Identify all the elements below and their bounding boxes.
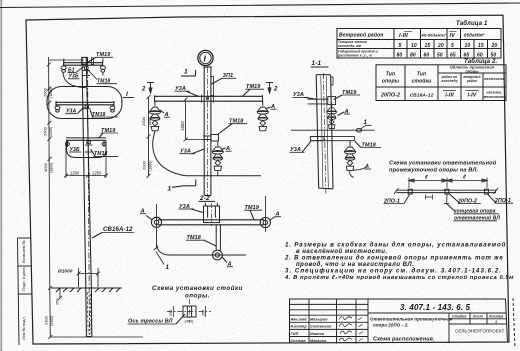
svg-text:Схема расположения.: Схема расположения.: [373, 337, 435, 343]
svg-text:I-III: I-III: [399, 33, 408, 39]
svg-text:2: 2: [273, 87, 278, 93]
OHL line: [397, 189, 497, 191]
svg-text:5: 5: [451, 43, 454, 49]
svg-text:2300: 2300: [44, 315, 49, 325]
svg-text:15: 15: [425, 43, 431, 49]
svg-text:1: 1: [184, 69, 188, 76]
branch bracket on pole: [203, 135, 218, 142]
pole fittings marks bottom: [85, 141, 93, 152]
svg-text:расстояние ℓ₁,ℓ₂, м: расстояние ℓ₁,ℓ₂, м: [337, 54, 372, 58]
svg-text:65даН/м²: 65даН/м²: [464, 33, 485, 38]
svg-text:Инв.№ подл.: Инв.№ подл.: [21, 316, 26, 340]
pole symbol 2ПО-1 (right): [484, 189, 488, 194]
crossarm (detail I): [155, 95, 263, 97]
label ТМ18 (top assembly): [89, 71, 118, 85]
svg-text:Иванов: Иванов: [310, 332, 325, 336]
svg-text:Н.контр: Н.контр: [291, 325, 308, 329]
svg-text:3. Спецификацию на опору см: 3. Спецификацию на опору см. докум. 3.40…: [285, 268, 502, 275]
svg-text:80: 80: [410, 52, 416, 58]
label ТМ18 (2-2): [186, 235, 216, 246]
svg-text:Взам.инв.№: Взам.инв.№: [21, 240, 26, 263]
detail mark I: [123, 91, 134, 98]
middle crossarm: [56, 101, 114, 103]
pole symbol 20ПО-2 (middle): [445, 189, 449, 194]
label ТМ19 (bottom assembly): [99, 128, 118, 138]
pole fittings marks middle: [83, 105, 91, 109]
label 2ПО-1 (right): [488, 194, 514, 204]
svg-text:(2200): (2200): [49, 127, 53, 137]
bottom crossarm: [66, 137, 106, 139]
grounding conductor strip on pole: [211, 77, 213, 96]
pole stand СВ16А-12 (left general view): [82, 57, 86, 288]
left pin (bottom): [66, 141, 70, 148]
label А (2-2 left end): [140, 209, 153, 220]
svg-text:10: 10: [465, 43, 471, 49]
label Ось трассы ВЛ: [128, 314, 186, 325]
scan left edge streak: [0, 0, 2, 351]
extension line right (2-2): [265, 196, 267, 232]
svg-text:2-2: 2-2: [199, 195, 210, 202]
svg-text:50: 50: [491, 52, 497, 58]
label А (1-1 top insulator): [338, 109, 351, 116]
label А (lower insulator): [221, 146, 232, 152]
buried depth dimension: [44, 288, 144, 339]
right insulator (middle): [110, 106, 115, 112]
svg-text:I: I: [204, 54, 207, 64]
svg-text:опоры: опоры: [465, 69, 479, 73]
svg-text:60: 60: [424, 52, 430, 58]
dimension 250 (below ground): [56, 288, 63, 305]
paper top edge: [0, 3, 520, 8]
crossarm beam (2-2 plan): [158, 219, 264, 221]
stage/sheet cells: [449, 313, 506, 343]
svg-text:(3800): (3800): [50, 163, 54, 173]
side stamp strip: [18, 238, 32, 345]
right bolt: [260, 217, 270, 227]
svg-text:65: 65: [450, 52, 456, 58]
svg-text:250: 250: [201, 310, 205, 316]
svg-text:ℓ: ℓ: [462, 175, 466, 181]
extension ticks: [408, 178, 410, 189]
svg-text:Схема установки стойки: Схема установки стойки: [152, 285, 243, 292]
hook below: [350, 171, 354, 178]
svg-text:Таблица 2.: Таблица 2.: [464, 58, 498, 65]
label У3А (1-1 lower): [290, 141, 312, 153]
label А (2-2 right end): [269, 212, 281, 221]
pole cross-section bracket (2-2): [204, 203, 220, 226]
svg-text:250: 250: [169, 310, 173, 316]
section cut 1 (bottom): [168, 180, 196, 193]
signature scribbles: [339, 317, 363, 342]
svg-text:Макаров: Макаров: [310, 339, 327, 343]
svg-text:Тип: Тип: [417, 72, 426, 78]
label У3Б (bottom): [69, 147, 81, 153]
svg-text:I: I: [126, 91, 128, 98]
svg-text:I-IV: I-IV: [468, 93, 477, 99]
label ТМ18 (1-1 bracket): [355, 141, 381, 148]
svg-text:Ø1000: Ø1000: [58, 269, 73, 274]
detail I boundary (middle assembly stadium): [47, 87, 122, 119]
svg-text:(1800): (1800): [49, 88, 53, 98]
svg-text:4000: 4000: [43, 162, 48, 172]
svg-text:Схема установки ответвительной: Схема установки ответвительной: [389, 160, 497, 167]
svg-text:Ответвительная промежуточная: Ответвительная промежуточная: [370, 317, 453, 322]
wire through bolt (2-2): [170, 254, 246, 256]
dimension 1500: [180, 97, 203, 141]
label СВ16А-12: [92, 227, 134, 238]
svg-text:1250: 1250: [70, 170, 80, 175]
scan right edge: [513, 298, 515, 348]
dimension 1250 1250: [64, 142, 108, 178]
svg-text:20: 20: [437, 43, 444, 49]
svg-text:(2400): (2400): [50, 316, 54, 326]
detail I circle mark: [198, 50, 213, 65]
svg-text:50: 50: [437, 52, 443, 58]
left dimension (detail I): [141, 95, 152, 178]
svg-text:80: 80: [397, 52, 403, 58]
table 1 grid: [337, 29, 501, 59]
section cut 1 (top): [181, 69, 196, 77]
svg-text:4. В пролёте ℓ₁=40м провод нав: 4. В пролёте ℓ₁=40м провод навешивать со…: [284, 274, 514, 281]
label концевая опора ответвления ВЛ: [447, 204, 501, 222]
right suspension insulator: [257, 101, 268, 131]
label У3А (middle): [66, 107, 85, 115]
label У3А (lower): [180, 149, 205, 155]
label У3Б (top): [68, 74, 80, 80]
svg-text:ГИП: ГИП: [291, 332, 299, 336]
label Б1: [68, 66, 85, 73]
lower suspension insulator: [212, 141, 223, 171]
top clamp on pole: [308, 97, 336, 105]
branch bracket bar (1-1): [310, 137, 354, 141]
svg-text:2000: 2000: [43, 87, 48, 97]
top crossarm ТМ19: [64, 62, 103, 64]
svg-text:1-1: 1-1: [312, 60, 322, 67]
svg-text:2400: 2400: [43, 126, 48, 136]
svg-text:1: 1: [166, 264, 170, 271]
pole symbol 2ПО-1 (left): [408, 189, 412, 194]
left bolt: [151, 217, 161, 227]
label ТМ18 (bottom): [91, 149, 119, 157]
label А (left insulator): [160, 110, 170, 118]
svg-text:1500: 1500: [180, 121, 185, 131]
crossarm-pole bolts: [202, 95, 214, 103]
svg-text:населен.: населен.: [487, 91, 503, 95]
svg-text:ℓ: ℓ: [424, 175, 428, 181]
svg-text:Мазырин: Мазырин: [310, 318, 328, 322]
bolt at strap end: [213, 250, 223, 260]
pole top cap: [82, 57, 88, 64]
span dimension line: [409, 180, 487, 182]
right pin (bottom): [102, 141, 106, 148]
svg-text:(1800): (1800): [148, 161, 152, 171]
pole (1-1 flat view, tapered): [316, 75, 319, 189]
dimension Ø1000: [58, 268, 100, 287]
svg-text:опоры.: опоры.: [185, 293, 210, 300]
label А (bolt 2-2): [222, 257, 233, 268]
grounding strap on pole top: [331, 77, 333, 85]
ground line (left pole): [51, 288, 122, 292]
svg-text:60: 60: [477, 52, 483, 58]
insulator (1-1 top): [327, 103, 337, 129]
right pin insulator (top crossarm): [100, 59, 105, 76]
svg-text:IV: IV: [450, 33, 456, 39]
label У3А (1-1 top): [293, 92, 317, 99]
insulator (1-1 lower): [349, 141, 351, 146]
svg-text:Состав.: Состав.: [291, 339, 307, 343]
svg-text:20: 20: [491, 43, 498, 49]
label 2ПО-1 (left): [383, 194, 410, 205]
left dimension chain: [43, 57, 85, 290]
svg-text:2: 2: [141, 87, 146, 93]
label ЗП1: [212, 73, 237, 84]
svg-text:10: 10: [411, 43, 417, 49]
svg-text:40-50даН/м²: 40-50даН/м²: [421, 33, 447, 38]
label 20ПО-2 (middle): [450, 194, 482, 204]
svg-text:Подп. и дата: Подп. и дата: [21, 267, 26, 291]
table 2 grid: [376, 65, 506, 101]
svg-text:Листов: Листов: [488, 314, 503, 318]
svg-text:3. 407.1 - 143. 6. 5: 3. 407.1 - 143. 6. 5: [400, 303, 471, 312]
svg-text:Таблица 1: Таблица 1: [456, 20, 488, 27]
pole centerline: [88, 57, 90, 335]
svg-text:гололеда, мм: гололеда, мм: [338, 44, 362, 48]
svg-text:гололеду: гололеду: [441, 79, 457, 83]
svg-text:Соловьева: Соловьева: [310, 325, 331, 329]
callout 1 (wire tie): [360, 119, 372, 129]
left insulator (middle): [55, 106, 60, 112]
pole fittings marks top: [82, 67, 90, 76]
label ТМ18 (pole bracket): [217, 119, 247, 136]
buried pole texture: [87, 292, 91, 334]
svg-text:(400): (400): [185, 320, 195, 324]
label 1 (wire callout): [156, 252, 170, 272]
svg-text:I-III: I-III: [445, 93, 454, 99]
svg-text:Лист: Лист: [472, 314, 483, 318]
bottom assembly boundary arc: [67, 140, 107, 158]
svg-text:Нач.отд: Нач.отд: [291, 318, 308, 322]
svg-text:2000: 2000: [141, 116, 146, 126]
wire bend corner: [157, 244, 171, 255]
small offset dim: [426, 195, 433, 200]
svg-text:5: 5: [399, 43, 402, 49]
title block outline: [290, 299, 508, 344]
svg-text:1: 1: [495, 320, 497, 324]
axis vertical: [189, 299, 191, 323]
svg-text:1: 1: [168, 186, 172, 193]
svg-text:(1800): (1800): [148, 117, 152, 127]
title block columns (left grid): [290, 299, 369, 344]
pole (detail I view): [203, 67, 205, 196]
svg-text:местность: местность: [484, 95, 506, 99]
svg-text:Тип: Тип: [386, 72, 395, 78]
section marker 2 (left): [141, 83, 154, 94]
branch wire (detail I): [153, 131, 186, 176]
svg-text:район: район: [466, 79, 477, 83]
axis horizontal: [167, 311, 211, 313]
svg-text:местность: местность: [484, 77, 505, 81]
document number cell: [368, 312, 506, 314]
label У3А (2-2): [179, 204, 204, 213]
svg-text:стойки: стойки: [412, 78, 432, 85]
svg-text:65: 65: [464, 52, 470, 58]
label А (1-1 wire): [364, 164, 371, 170]
svg-text:опора 20ПО - 2.: опора 20ПО - 2.: [373, 323, 409, 328]
svg-text:СВ16А-12: СВ16А-12: [410, 93, 434, 99]
label ТМ18 (middle): [90, 110, 118, 118]
stand plan square: [183, 306, 196, 317]
svg-text:1250: 1250: [92, 170, 102, 175]
label ТМ19 (1-1): [334, 90, 360, 100]
svg-text:20ПО-2: 20ПО-2: [380, 93, 400, 99]
svg-text:Ветровой район: Ветровой район: [339, 32, 383, 39]
wire tie loop: [356, 128, 362, 132]
label А (right insulator): [267, 104, 277, 110]
signature rows text: [291, 318, 331, 343]
dim 250 right: [201, 306, 205, 317]
branch wire (top assembly): [63, 72, 86, 87]
left pin insulator (top crossarm): [61, 59, 66, 73]
branch wire out (1-1): [353, 167, 367, 170]
label ТМ19 (crossarm): [242, 84, 264, 97]
dim 250 left: [169, 306, 174, 317]
svg-text:2. В ответвлении до концевой: 2. В ответвлении до концевой опоры приме…: [284, 255, 504, 262]
svg-text:1. Размеры в скобках даны: 1. Размеры в скобках даны для опоры, уст…: [285, 242, 506, 249]
svg-text:250: 250: [56, 299, 60, 305]
hanger strap down from beam: [216, 225, 220, 251]
svg-text:промежуточной опоры на ВЛ.: промежуточной опоры на ВЛ.: [389, 167, 478, 174]
extension line left (2-2): [156, 204, 158, 248]
svg-text:15: 15: [478, 43, 484, 49]
wire to the right: [186, 175, 261, 177]
svg-text:Стадия: Стадия: [452, 314, 466, 318]
svg-text:2000: 2000: [141, 160, 146, 170]
svg-text:опоры: опоры: [382, 79, 400, 85]
wire end tick: [154, 247, 159, 251]
line wire (1-1): [291, 129, 375, 131]
label ТМ19 (top): [87, 52, 114, 63]
svg-text:СЕЛЬЭНЕРГОПРОЕКТ: СЕЛЬЭНЕРГОПРОЕКТ: [455, 329, 504, 334]
label У3А (crossarm): [175, 86, 200, 97]
left suspension insulator: [150, 101, 161, 131]
section marker 2 (right): [266, 83, 278, 94]
label ТМ19 (2-2): [244, 205, 262, 220]
